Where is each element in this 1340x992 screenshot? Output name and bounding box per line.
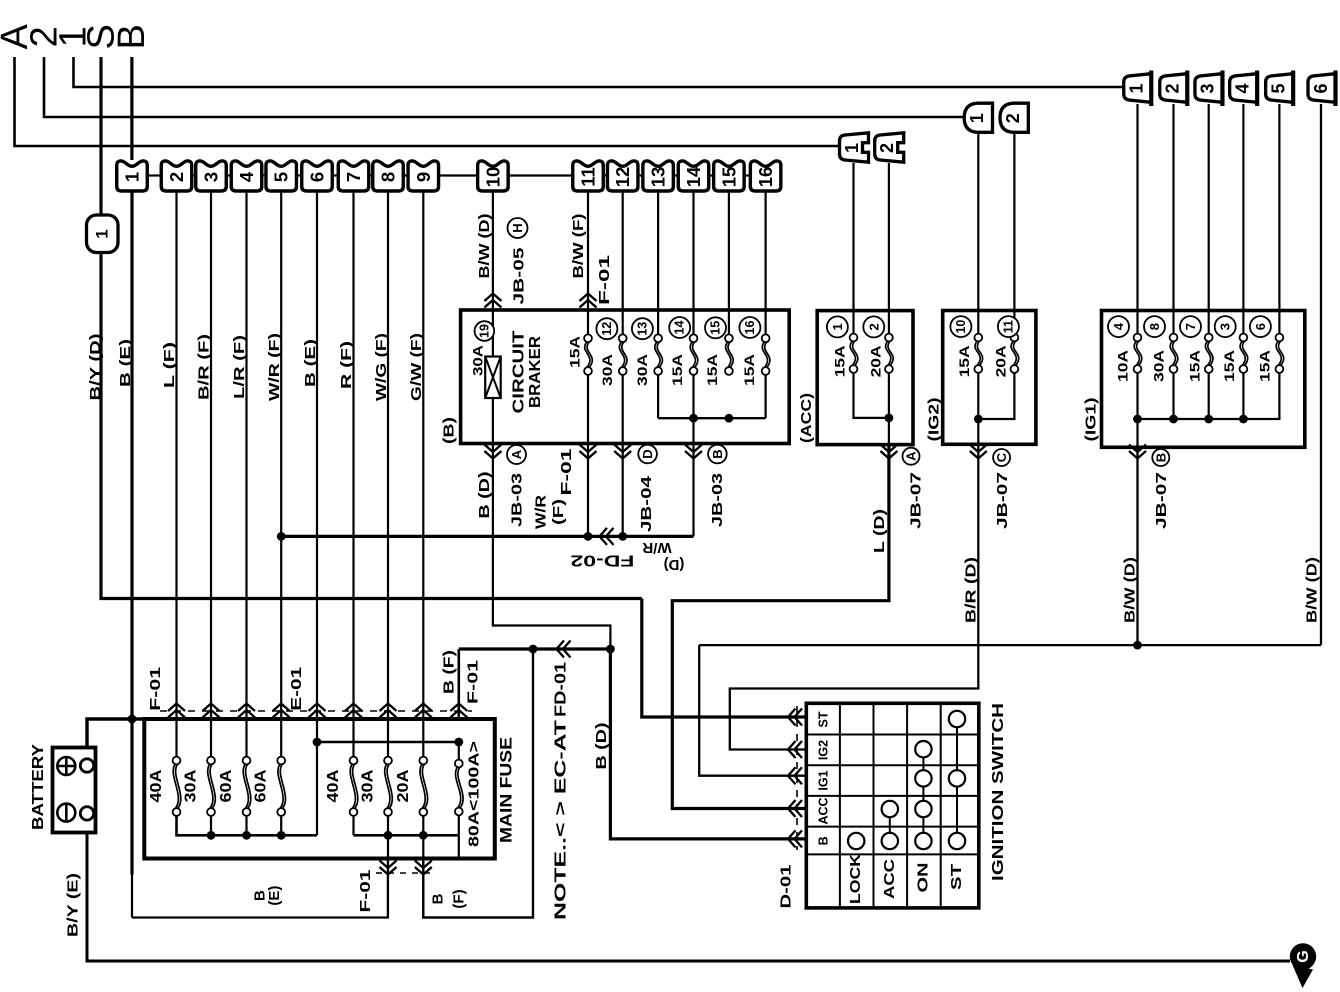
chevron into main fuse at 176.5 [168, 704, 185, 718]
chevron into main fuse at 423.3 [415, 704, 432, 718]
main fuse at x=388 [385, 764, 390, 809]
junction 211,835.3 [207, 831, 216, 840]
wire: B/R (F) box3 drop [210, 191, 212, 757]
svg-text:30A: 30A [1151, 350, 1167, 382]
circled A JB-07 [903, 448, 920, 465]
svg-text:10: 10 [482, 167, 503, 188]
svg-text:B (E): B (E) [302, 339, 319, 387]
svg-text:MAIN FUSE: MAIN FUSE [498, 737, 516, 843]
svg-text:12: 12 [612, 167, 633, 188]
connector terminal 4 [231, 161, 262, 191]
junction 888.9,417.9 [885, 414, 894, 423]
wire: B (E) box6 drop to main fuse internal bus [316, 191, 318, 835]
wire: bottom run to 30A main fuse [132, 856, 388, 918]
svg-text:BATTERY: BATTERY [30, 744, 47, 830]
circled B JB-03 [708, 445, 727, 464]
connector flag 1 top-right [1124, 74, 1152, 103]
svg-text:2: 2 [1163, 83, 1183, 93]
ignition contact at 889.8,841 [882, 833, 898, 849]
wire: breaker internal bus 13-16 [657, 375, 659, 418]
link box9-box10 [440, 174, 476, 176]
junction 1137.5,645.1 [1133, 641, 1142, 650]
circled H [508, 218, 528, 238]
connector terminal 11 [573, 161, 604, 191]
fuse in breaker block at x=693.5 [690, 342, 695, 368]
svg-text:ACC: ACC [817, 797, 831, 824]
svg-text:ST: ST [817, 711, 831, 727]
wire: IG2 row feed from IG2 box [730, 444, 979, 750]
connector flag 2 (to ACC) [875, 133, 904, 162]
wire: L/R (F) box4 drop [245, 191, 247, 757]
junction 978.3,419 [974, 415, 983, 424]
svg-text:30A: 30A [183, 769, 200, 802]
svg-text:F-01: F-01 [357, 870, 374, 913]
wire: ACC flag2 drop [888, 163, 890, 335]
wire: IG2 fuse2 to output join [978, 373, 1014, 420]
svg-text:(B): (B) [441, 417, 458, 444]
svg-text:10A: 10A [1115, 350, 1131, 382]
svg-text:B (E): B (E) [117, 339, 134, 387]
wire: box13 drop [657, 191, 659, 335]
svg-text:B/W (D): B/W (D) [476, 214, 493, 279]
circled 2 [863, 316, 884, 337]
svg-text:(E): (E) [266, 886, 283, 906]
connector terminal 6 [302, 161, 333, 191]
svg-text:1: 1 [842, 143, 862, 153]
junction 1243.4,419 [1239, 415, 1248, 424]
svg-text:(IG2): (IG2) [925, 397, 942, 441]
svg-text:80A<100A>: 80A<100A> [465, 741, 482, 847]
wire: FD-01 bus [459, 647, 611, 650]
svg-text:W/R (F): W/R (F) [266, 333, 283, 401]
wire: B (D) breaker output elbow to ignition B bus [493, 444, 611, 650]
wire: ACC flag1 drop [852, 163, 854, 335]
fuse in breaker block at x=658.1 [655, 342, 660, 368]
wire: ST row feed [642, 599, 805, 718]
wire: B/Y (E) battery negative to ground bus [87, 819, 1290, 961]
chevron JB-05 on wire 10 [484, 294, 501, 308]
wire: B/W (D) flag6 drop to IG1 output bus [1320, 104, 1322, 645]
connector 1 on net S [87, 215, 119, 253]
chevron into main fuse at 246.5 [238, 704, 255, 718]
svg-text:2: 2 [877, 143, 897, 153]
svg-text:ACC: ACC [882, 858, 898, 899]
svg-text:IGNITION SWITCH: IGNITION SWITCH [990, 703, 1007, 881]
svg-text:10: 10 [954, 320, 968, 334]
svg-text:15A: 15A [1221, 350, 1237, 382]
svg-text:C: C [994, 452, 1009, 462]
svg-text:5: 5 [1268, 83, 1288, 93]
chevron ignition feed 838.9 [788, 830, 802, 847]
svg-text:(F): (F) [550, 499, 567, 525]
svg-text:D-01: D-01 [777, 865, 794, 909]
svg-text:15A: 15A [741, 354, 757, 386]
svg-text:15A: 15A [1256, 350, 1272, 382]
connector terminal 15 [714, 161, 745, 191]
junction 388,835.3 [384, 831, 393, 840]
svg-text:L (F): L (F) [161, 342, 178, 388]
ignition contact at 889.8,809 [882, 801, 898, 817]
chevron F-01 on wire 11 [580, 294, 597, 308]
svg-text:13: 13 [648, 167, 669, 188]
junction 588,536.4 [584, 532, 593, 541]
fuse at x=1279.4 [1276, 341, 1281, 366]
wire: B (E) from box1 to battery junction and down [130, 191, 133, 875]
wire: box16 drop [764, 191, 766, 335]
svg-text:1: 1 [1127, 83, 1147, 93]
svg-text:W/R: W/R [533, 495, 550, 529]
wire: net 1 branch top-left [74, 57, 1126, 87]
fuse at x=853.5 [850, 341, 855, 366]
svg-text:NOTE..< > EC-AT: NOTE..< > EC-AT [553, 719, 570, 920]
svg-text:JB-03: JB-03 [709, 473, 726, 527]
svg-text:2: 2 [1003, 113, 1023, 123]
svg-text:FD-01: FD-01 [553, 662, 570, 717]
link box10-box11 [510, 174, 572, 176]
svg-text:A: A [904, 451, 919, 461]
chevron below main fuse W/G [380, 861, 397, 875]
main fuse at x=246.5 [243, 764, 248, 809]
svg-text:B (D): B (D) [476, 472, 493, 519]
svg-text:30A: 30A [634, 354, 650, 386]
junction 1137.5,419 [1133, 415, 1142, 424]
wire: net 2 branch top-left [44, 57, 965, 117]
circled A JB-03 [507, 445, 526, 464]
circuit breaker block (B) [461, 310, 790, 444]
chevron FD-02 bus [600, 528, 614, 545]
dashed harness line below main fuse [376, 872, 436, 874]
chevron into main fuse at 281.2 [273, 704, 290, 718]
wire: IG1 output bus [699, 644, 1321, 646]
svg-text:40A: 40A [325, 769, 342, 802]
junction 533,649 [529, 645, 538, 654]
main fuse block [144, 719, 495, 859]
svg-text:14: 14 [673, 321, 687, 335]
main fuse at x=423.3 [420, 764, 425, 809]
svg-text:20A: 20A [992, 345, 1008, 377]
chevron into main fuse at 353.5 [345, 704, 362, 718]
svg-text:1: 1 [967, 113, 987, 123]
wire: box15 drop [728, 191, 730, 335]
connector 2 (to IG2) [1000, 103, 1028, 132]
svg-text:19: 19 [477, 324, 491, 338]
svg-text:B: B [1153, 453, 1168, 462]
wire: B/W (F) box11 drop [587, 191, 589, 335]
junction 281.2,835.3 [277, 831, 286, 840]
svg-text:JB-07: JB-07 [994, 472, 1011, 529]
chevron into main fuse at 458.8 [450, 704, 467, 718]
battery [53, 748, 96, 833]
svg-text:F-01: F-01 [147, 667, 164, 711]
svg-text:B/R (D): B/R (D) [962, 557, 979, 623]
ignition contact at 957,841 [949, 833, 965, 849]
main fuse at x=353.5 [350, 764, 355, 809]
svg-text:5: 5 [271, 172, 292, 182]
svg-text:11: 11 [578, 167, 599, 187]
wire: ACC row feed from ACC box [672, 444, 889, 809]
junction 1208.7,419 [1204, 415, 1213, 424]
fuse block (IG2) [943, 311, 1036, 445]
chevron JB-04 D [614, 445, 631, 459]
connector terminal 12 [607, 161, 638, 191]
connector terminal 14 [678, 161, 709, 191]
svg-text:15A: 15A [1187, 350, 1203, 382]
connector 1 (to IG2) [964, 103, 992, 132]
wire: 80A fuse column [458, 742, 460, 760]
fuse in breaker block at x=588 [585, 342, 590, 368]
ignition switch contact column lines [889, 809, 891, 841]
link box1-box2 [149, 174, 161, 176]
chevron JB-03 A [484, 445, 501, 459]
main fuse at x=176.5 [173, 764, 178, 809]
svg-text:1: 1 [122, 172, 143, 182]
wire: rounded2 drop [1013, 133, 1015, 335]
svg-text:30A: 30A [360, 769, 377, 802]
connector terminal 16 [750, 161, 781, 191]
fuse at x=1173.5 [1170, 341, 1175, 366]
fuse at x=1137.5 [1134, 341, 1139, 366]
svg-text:IG2: IG2 [817, 740, 831, 760]
svg-text:(D): (D) [664, 556, 685, 573]
svg-text:B: B [430, 893, 447, 904]
ignition contact at 923.4,778.4 [915, 770, 931, 786]
wire: branch down to 20A fuse return [423, 649, 533, 918]
ground symbol G [1290, 943, 1316, 969]
wire: R (F) box7 drop [352, 191, 354, 757]
wire: W/G (F) box8 drop [387, 191, 389, 757]
ignition contact at 923.4,841 [915, 833, 931, 849]
svg-text:60A: 60A [253, 769, 270, 802]
circuit breaker 30A symbol [485, 357, 501, 399]
wire: box14 drop [692, 191, 694, 335]
dashed harness line across main fuse connectors [160, 710, 472, 712]
main fuse 80A<100A> [455, 767, 460, 808]
wire: IG1 box output drop [1136, 444, 1138, 646]
svg-text:15A: 15A [956, 345, 972, 377]
svg-text:R (F): R (F) [338, 341, 355, 389]
svg-text:12: 12 [600, 322, 614, 336]
svg-text:B (D): B (D) [593, 723, 610, 770]
svg-text:CIRCUIT: CIRCUIT [511, 330, 528, 414]
svg-text:B: B [111, 24, 153, 49]
circled C JB-07 [993, 449, 1010, 466]
svg-text:2: 2 [166, 172, 187, 182]
junction 693.5,418.2 [689, 414, 698, 423]
svg-text:IG1: IG1 [817, 770, 831, 790]
svg-text:B: B [817, 836, 831, 845]
fuse in breaker block at x=622.7 [619, 342, 624, 368]
connector terminal 13 [643, 161, 674, 191]
svg-text:4: 4 [1111, 322, 1126, 330]
svg-text:B/Y (E): B/Y (E) [65, 873, 82, 937]
connector terminal 7 [338, 161, 369, 191]
svg-text:L/R (F): L/R (F) [231, 335, 248, 399]
wire: B/W (D) box10 drop into circuit breaker [492, 191, 494, 444]
svg-text:L (D): L (D) [871, 509, 888, 553]
circled 8 [1144, 316, 1165, 337]
main fuse at x=281.2 [278, 764, 283, 809]
circled 10 [950, 316, 971, 337]
wire: G/W (F) box9 drop [422, 191, 424, 757]
svg-text:W/G (F): W/G (F) [373, 333, 390, 401]
svg-text:11: 11 [1001, 320, 1015, 333]
circled 11 [998, 316, 1019, 337]
svg-text:JB-07: JB-07 [1153, 472, 1170, 529]
wire: flag1 drop to IG1 fuse [1136, 104, 1138, 335]
svg-text:B/W (D): B/W (D) [1122, 557, 1139, 623]
chevron into main fuse at 317 [309, 704, 326, 718]
svg-text:G/W (F): G/W (F) [408, 333, 425, 401]
chevron into main fuse at 388 [380, 704, 397, 718]
wire: main fuse internal bus to 80A fuse top [317, 741, 459, 744]
junction 728.9,418.2 [725, 414, 734, 423]
svg-text:15A: 15A [566, 336, 582, 368]
chevron ignition feed 808.5 [788, 800, 802, 817]
circled 1 [827, 316, 848, 337]
wire: main fuse group1 bottom bus [177, 816, 318, 835]
junction 281.2,536.4 [277, 532, 286, 541]
connector terminal 1 [117, 161, 148, 191]
chevron into main fuse at 211 [203, 704, 220, 718]
svg-text:JB-07: JB-07 [908, 472, 925, 529]
junction 423.3,835.3 [419, 831, 428, 840]
svg-text:1: 1 [830, 323, 845, 330]
wire: flag2 drop [1172, 104, 1174, 335]
svg-text:FD-02: FD-02 [570, 551, 634, 568]
wire: wire 11 output to FD-02 bus [587, 375, 589, 537]
junction 317,742 [313, 738, 322, 747]
wire: ACC fuse2 wire [888, 373, 890, 444]
wire: B (F) riser to 80A main fuse [457, 649, 460, 720]
svg-text:4: 4 [236, 171, 257, 182]
svg-text:20A: 20A [868, 345, 884, 377]
connector terminal 9 [408, 161, 439, 191]
ignition switch frame D-01 [806, 703, 979, 908]
svg-text:6: 6 [1311, 83, 1331, 93]
svg-text:3: 3 [1218, 323, 1233, 330]
ignition contact at 923.4,749.2 [915, 741, 931, 757]
svg-text:15A: 15A [831, 345, 847, 377]
circled 3 [1215, 316, 1236, 337]
junction 246.5,835.3 [242, 831, 251, 840]
main fuse at x=211 [208, 764, 213, 809]
svg-text:ON: ON [915, 863, 931, 893]
svg-text:7: 7 [343, 172, 364, 182]
junction 1173.5,419 [1169, 415, 1178, 424]
circled 4 [1108, 316, 1129, 337]
ignition contact at 957,778.4 [949, 770, 965, 786]
circled 19 [475, 321, 495, 341]
svg-text:JB-03: JB-03 [509, 473, 526, 527]
svg-text:16: 16 [743, 321, 757, 335]
svg-text:A: A [509, 449, 524, 459]
svg-text:G: G [1295, 950, 1312, 962]
svg-text:3: 3 [1198, 83, 1218, 93]
svg-text:JB-04: JB-04 [638, 475, 655, 532]
chevron JB-03 B [685, 445, 702, 459]
connector flag 6 top-right [1308, 74, 1336, 103]
fuse block (IG1) [1102, 311, 1305, 448]
svg-text:F-01: F-01 [465, 660, 482, 704]
svg-text:60A: 60A [218, 769, 235, 802]
svg-text:1: 1 [93, 229, 112, 238]
connector terminal 2 [161, 161, 192, 191]
connector terminal 3 [196, 161, 227, 191]
wire: box12 drop [622, 191, 624, 335]
wire: net A branch top-left [15, 57, 842, 146]
wire: JB-04 D wire 12 output [622, 375, 624, 537]
chevron ignition feed 749.5 [788, 741, 802, 758]
svg-text:15A: 15A [669, 354, 685, 386]
wire: JB-03 B output wire 14 [692, 375, 694, 537]
circled 6 [1250, 316, 1271, 337]
fuse at x=978.3 [975, 341, 980, 366]
chevron JB-07 C [970, 445, 987, 459]
wire: W/R (F) box5 drop [280, 191, 282, 757]
svg-text:15: 15 [718, 167, 739, 188]
svg-text:B (F): B (F) [441, 650, 458, 694]
svg-text:30A: 30A [599, 354, 615, 386]
wire: ACC fuse1 to output join [854, 373, 889, 418]
svg-text:4: 4 [1232, 83, 1252, 93]
svg-text:D: D [640, 449, 655, 458]
wire: W/G exit below main fuse [387, 835, 389, 917]
chevron JB-07 A [880, 445, 897, 459]
junction 610.4,649 [606, 645, 615, 654]
svg-text:8: 8 [1147, 323, 1162, 330]
fuse at x=1208.7 [1205, 341, 1210, 366]
wire: net S vertical then to ignition ST feed [101, 57, 642, 599]
svg-text:15A: 15A [704, 354, 720, 386]
dashed harness line at ignition switch connector [796, 706, 798, 850]
svg-text:B/R (F): B/R (F) [196, 334, 213, 400]
circled 7 [1180, 316, 1201, 337]
fuse in breaker block at x=765.6 [762, 342, 767, 368]
wire: G/W 20A exit below main fuse [422, 835, 424, 917]
svg-text:9: 9 [413, 172, 434, 182]
connector terminal 10 [478, 161, 509, 191]
circled 14 [669, 317, 690, 338]
circled 16 [739, 317, 760, 338]
fuse at x=888.9 [886, 341, 891, 366]
svg-text:40A: 40A [148, 769, 165, 802]
wire: flag4 drop [1242, 104, 1244, 335]
ignition contact at 923.4,809 [915, 801, 931, 817]
junction 132,719 [128, 715, 137, 724]
connector terminal 8 [373, 161, 404, 191]
svg-text:15: 15 [709, 321, 723, 335]
wire: B (D) feed to ignition B row [610, 649, 805, 839]
svg-text:6: 6 [307, 172, 328, 182]
svg-text:BRAKER: BRAKER [527, 336, 544, 408]
junction 622.7,536.4 [618, 532, 627, 541]
fuse in breaker block at x=728.9 [726, 342, 731, 368]
svg-text:F-01: F-01 [596, 255, 613, 305]
wire: IG1 row feed [699, 645, 805, 776]
chevron below main fuse G/W [415, 861, 432, 875]
svg-text:6: 6 [1253, 323, 1268, 330]
wire: IG2 fuse1 wire / output [977, 373, 979, 444]
junction 458.8,742 [454, 738, 463, 747]
wire: net B vertical into connector box 1 [130, 57, 133, 160]
svg-text:B: B [710, 449, 725, 458]
svg-text:7: 7 [1183, 323, 1198, 330]
wire: main fuse group2 bottom bus [352, 816, 354, 835]
circled 12 [596, 318, 617, 339]
fuse at x=1243.4 [1240, 341, 1245, 366]
connector flag 2 top-right [1160, 74, 1188, 103]
circled D JB-04 [638, 445, 657, 464]
